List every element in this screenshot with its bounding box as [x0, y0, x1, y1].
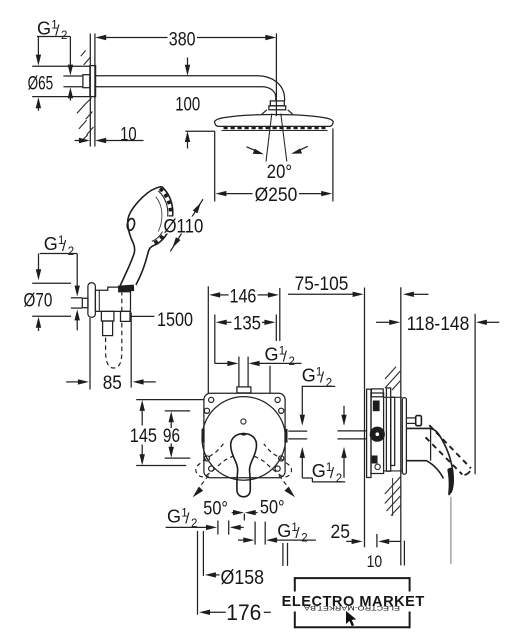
- svg-text:380: 380: [169, 29, 196, 50]
- svg-text:10: 10: [367, 553, 383, 571]
- svg-text:ELECTRO-MARKET.BA: ELECTRO-MARKET.BA: [303, 604, 400, 611]
- svg-text:135: 135: [233, 314, 261, 335]
- svg-text:176: 176: [226, 600, 261, 625]
- svg-text:10: 10: [120, 124, 137, 145]
- svg-text:20°: 20°: [267, 162, 292, 183]
- svg-text:Ø250: Ø250: [255, 185, 298, 206]
- svg-text:146: 146: [230, 287, 257, 308]
- svg-text:85: 85: [103, 373, 122, 394]
- svg-text:Ø70: Ø70: [24, 290, 53, 311]
- svg-text:50°: 50°: [260, 497, 285, 518]
- svg-text:118-148: 118-148: [407, 314, 470, 335]
- svg-text:1500: 1500: [157, 310, 193, 331]
- svg-text:75-105: 75-105: [295, 274, 349, 295]
- svg-text:50°: 50°: [203, 499, 228, 520]
- svg-text:96: 96: [163, 426, 180, 447]
- svg-text:Ø65: Ø65: [28, 74, 53, 95]
- svg-text:Ø110: Ø110: [164, 216, 204, 237]
- svg-text:Ø158: Ø158: [221, 566, 265, 589]
- svg-text:25: 25: [331, 522, 351, 543]
- svg-text:145: 145: [130, 426, 157, 447]
- svg-text:100: 100: [175, 95, 200, 116]
